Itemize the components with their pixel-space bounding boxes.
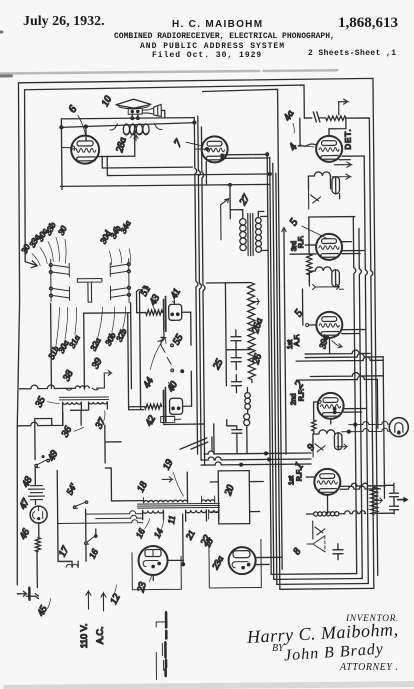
wire riser x211	[211, 437, 213, 451]
arrow 26 tap	[251, 298, 259, 304]
svg-text:5: 5	[292, 307, 305, 319]
mic button 41	[169, 304, 182, 320]
bus v3	[364, 156, 370, 583]
wire right drop x383	[377, 357, 384, 499]
resistor 3rf screen	[307, 254, 312, 275]
wire top border third	[203, 89, 282, 465]
svg-text:23a: 23a	[210, 554, 225, 571]
tube6 grid ext circle	[72, 146, 75, 149]
wire diag 1	[180, 438, 208, 449]
wire misc left col	[58, 509, 97, 567]
coupling L1	[308, 172, 330, 189]
leader 16-14	[145, 518, 164, 528]
arrow det fil2	[332, 174, 350, 179]
capacitor 25c	[231, 375, 241, 393]
svg-text:17: 17	[57, 544, 72, 559]
switch gang left	[49, 263, 52, 266]
bus h355	[305, 350, 370, 354]
tube V6	[71, 136, 99, 164]
cap stack line	[225, 283, 251, 386]
attorney	[340, 662, 398, 673]
svg-text:1st: 1st	[288, 476, 295, 485]
wire xfmr verticals	[105, 467, 187, 503]
svg-text:A.F.: A.F.	[294, 334, 301, 346]
svg-text:2nd: 2nd	[290, 393, 297, 405]
svg-text:41: 41	[169, 287, 183, 301]
xfmr 13 winding	[209, 510, 219, 513]
coil 28a	[123, 124, 129, 135]
bus v4	[346, 118, 376, 589]
arrow det fil1	[334, 162, 351, 167]
wire tube7 grid left	[195, 148, 209, 150]
xfmr 27 core	[248, 214, 253, 256]
tube 1AF	[316, 312, 342, 338]
leader curves S2b	[98, 307, 126, 337]
wire bottom rails	[270, 463, 374, 589]
svg-text:46: 46	[18, 527, 32, 541]
svg-text:38: 38	[61, 369, 76, 384]
switch 49	[35, 460, 51, 468]
wire top border outer	[18, 78, 377, 578]
node grid bus right	[193, 121, 196, 124]
resistor 40r	[145, 404, 162, 409]
box 20	[218, 471, 250, 524]
wire top border inner	[25, 85, 305, 121]
box mic outer	[127, 292, 143, 410]
wire heater line y174	[107, 155, 270, 176]
svg-text:54': 54'	[64, 481, 78, 496]
wire 3hop lines	[58, 511, 143, 524]
xfmr 19 sec1	[143, 510, 164, 513]
antenna 8	[307, 536, 325, 552]
bus h381	[296, 376, 377, 380]
tube DET	[316, 136, 342, 162]
wire 36 drops	[63, 410, 89, 425]
cap mid	[227, 420, 242, 454]
svg-text:37: 37	[93, 416, 108, 432]
tube 23	[138, 546, 167, 575]
svg-text:40: 40	[165, 380, 179, 394]
wire det grid left	[298, 118, 346, 146]
resistor 2rf grid	[312, 420, 317, 431]
xfmr 36 sec1	[63, 402, 82, 404]
svg-text:R.F.: R.F.	[298, 236, 305, 249]
svg-text:25: 25	[211, 357, 225, 371]
trimmer cap A	[309, 189, 321, 209]
signature John B Brady	[283, 641, 384, 666]
switch gang rails	[51, 259, 129, 304]
xfmr 18 right top winding	[201, 500, 214, 502]
svg-text:8: 8	[291, 546, 303, 556]
capacitor 25a	[231, 330, 241, 350]
inventor block	[346, 614, 399, 624]
svg-text:12: 12	[108, 592, 122, 606]
arrow det top	[339, 99, 348, 115]
wire speaker to V7 line y116	[161, 110, 194, 123]
tube 3RF	[316, 234, 342, 260]
signature Harry C. Maibohm	[247, 619, 399, 648]
trimmer cap B	[313, 439, 325, 457]
avc arrows	[312, 284, 343, 289]
wire mic41 right	[161, 312, 191, 345]
grid cap det	[304, 112, 320, 122]
wire jog vertical b	[198, 116, 203, 460]
leader curves S1b	[56, 307, 77, 345]
mic diaphragm 41	[164, 296, 166, 331]
svg-text:DET.: DET.	[343, 128, 352, 149]
xfmr 27 secondary	[255, 217, 261, 223]
coupling L3	[313, 430, 335, 447]
svg-text:16: 16	[87, 547, 100, 560]
svg-text:32a: 32a	[88, 336, 103, 353]
trimmer cap C	[313, 521, 325, 539]
wire tube6 grid riser	[85, 127, 87, 141]
svg-text:4: 4	[287, 141, 300, 153]
wire switch left drop	[50, 303, 53, 388]
resistor 26a	[247, 283, 255, 380]
xfmr 27 primary	[240, 219, 246, 225]
svg-text:23: 23	[136, 581, 149, 593]
tube V7	[202, 136, 228, 162]
BY	[272, 643, 284, 654]
svg-text:26: 26	[251, 353, 264, 366]
svg-text:1st: 1st	[287, 340, 294, 349]
leader curves S1	[32, 237, 66, 265]
wire 46 drop	[36, 552, 38, 588]
wire 27 sec top	[258, 211, 264, 217]
switch 16	[85, 536, 95, 544]
svg-text:44: 44	[141, 376, 155, 390]
header patent number	[338, 15, 398, 32]
wire box20 conn	[210, 481, 263, 512]
xfmr 18 primary	[144, 500, 188, 502]
wire grid bus y123	[61, 123, 194, 128]
tube 23a	[228, 547, 255, 574]
bus v1	[353, 217, 358, 574]
capacitor 25b	[231, 350, 241, 370]
wire tube6 plate up	[97, 124, 134, 156]
xfmr 36 core	[60, 397, 109, 400]
speaker horn 10	[116, 99, 152, 108]
svg-text:21: 21	[184, 528, 197, 541]
svg-text:5: 5	[287, 216, 300, 228]
wire tube7 cathode drop	[205, 161, 207, 184]
svg-text:47: 47	[17, 496, 32, 511]
svg-text:20: 20	[223, 484, 237, 497]
svg-text:39a: 39a	[317, 333, 330, 350]
wire left border	[14, 83, 22, 426]
switch arrow	[25, 261, 37, 268]
arrow cpl3	[337, 444, 347, 449]
wire mic41 loop	[136, 286, 148, 312]
bus h377	[310, 372, 383, 376]
ant coil	[314, 512, 318, 516]
wire line y184	[60, 184, 270, 220]
resistor 43	[146, 310, 163, 315]
svg-text:110 V.: 110 V.	[79, 624, 89, 649]
artifact bottom band	[3, 681, 414, 689]
switch 55	[161, 337, 171, 364]
wire switch right drop	[130, 303, 132, 313]
bus y465	[201, 461, 311, 465]
xfmr 19 sec2	[186, 510, 207, 513]
box 23a	[209, 539, 261, 587]
wire left x56 col	[52, 418, 58, 561]
wire tube6 left vert	[60, 119, 63, 189]
resistor 26 lower	[251, 380, 253, 383]
wire center verticals	[267, 152, 280, 589]
svg-text:28a: 28a	[114, 136, 128, 153]
svg-text:10: 10	[100, 94, 114, 108]
artifact top smudge	[0, 70, 337, 73]
wire bus y387	[19, 385, 74, 389]
bus h358	[305, 353, 383, 357]
wire 1rf conn	[306, 476, 385, 514]
svg-text:18: 18	[135, 480, 149, 494]
wire bus y424	[17, 411, 63, 425]
xfmr 18-19 core	[138, 503, 220, 508]
svg-text:1: 1	[291, 459, 306, 472]
cap 52a	[389, 491, 398, 501]
wire 3rf box	[284, 217, 357, 455]
arrow 39	[96, 370, 111, 388]
svg-text:11: 11	[166, 515, 177, 525]
battery 48	[28, 484, 44, 505]
svg-text:39: 39	[90, 356, 105, 371]
header sheet count	[308, 49, 396, 58]
arrow 44ptr	[158, 337, 164, 341]
svg-text:45: 45	[36, 604, 50, 618]
bus h362	[296, 357, 383, 361]
svg-text:6: 6	[66, 103, 79, 115]
gnd arrow right	[398, 499, 405, 501]
header title line 2	[140, 42, 285, 51]
wire heater line y167	[102, 156, 192, 168]
cap 52b	[390, 501, 399, 514]
arrow 19	[162, 477, 172, 482]
mic button 40	[170, 398, 183, 414]
xfmr 27 sec taps	[261, 216, 268, 250]
arrow 39a	[332, 341, 342, 348]
wire jog vertical c	[201, 127, 206, 465]
bus v2	[359, 229, 364, 579]
tube 47	[30, 506, 47, 523]
header inventor name	[172, 19, 263, 30]
tube 2RF	[317, 393, 343, 419]
coupling L2	[309, 267, 331, 286]
wire left lower vertical	[16, 426, 19, 585]
artifact left mark	[0, 32, 11, 76]
header filed line	[152, 51, 262, 60]
bus y454	[204, 450, 311, 454]
wire 23a conn	[255, 557, 281, 564]
comp 42	[161, 416, 181, 422]
svg-text:27: 27	[238, 192, 253, 207]
wire pot 50 frame	[375, 483, 394, 513]
svg-text:36: 36	[59, 425, 74, 440]
svg-text:4a: 4a	[282, 109, 296, 123]
wire 2rf conn	[314, 401, 366, 423]
tube 1RF	[314, 469, 340, 495]
ac arrows	[86, 591, 106, 611]
arrow pot 27	[221, 199, 229, 240]
switch 54	[74, 502, 86, 508]
cap 8b	[333, 544, 343, 560]
svg-text:31a: 31a	[66, 333, 81, 350]
wire mic40 wiring	[128, 371, 204, 425]
svg-text:A.C.: A.C.	[95, 626, 105, 644]
choke 24	[245, 393, 251, 399]
choke top	[244, 414, 250, 420]
ground G1	[165, 612, 167, 676]
svg-text:7: 7	[172, 137, 185, 149]
header date	[23, 14, 105, 30]
header title line 1	[114, 32, 335, 41]
wire speaker legs	[132, 114, 138, 118]
wire 49 drop	[35, 418, 53, 483]
svg-text:42: 42	[144, 414, 158, 428]
wire speaker bus y117	[61, 118, 194, 119]
coil 38	[75, 386, 89, 388]
resistor 46	[38, 523, 40, 538]
wire jog vertical a	[194, 123, 199, 454]
svg-text:32b: 32b	[113, 327, 128, 344]
bus y460	[201, 456, 311, 460]
svg-text:19: 19	[161, 458, 175, 472]
svg-text:30: 30	[55, 223, 69, 237]
arrow pot 50	[375, 498, 382, 503]
box 23	[132, 552, 181, 589]
wire right col x103	[105, 425, 121, 463]
leader curves S2 top	[109, 249, 130, 265]
svg-text:48: 48	[20, 475, 34, 489]
resistor 50	[370, 487, 377, 514]
wire det plate out	[339, 156, 364, 160]
wire 23 conn	[153, 514, 184, 580]
switch gang right	[127, 263, 130, 266]
wire 27 primary top	[230, 210, 243, 219]
box phono	[84, 313, 132, 389]
wire tube7 plate lines	[224, 154, 270, 158]
wire 1af conn	[302, 288, 365, 354]
xfmr 36 sec2	[89, 402, 108, 404]
wire mid risers	[214, 424, 247, 454]
arrow on v285	[282, 227, 286, 232]
wire left inner border	[24, 90, 27, 262]
grid leak det	[320, 117, 326, 119]
jack P	[389, 418, 408, 437]
node 23	[182, 563, 185, 566]
plug 45	[17, 588, 38, 600]
svg-text:49: 49	[46, 449, 60, 463]
wire bus y283	[206, 282, 250, 284]
wire jack conn	[342, 421, 390, 431]
wire 3rf bottom	[290, 250, 364, 254]
mic diaphragm 40	[163, 387, 165, 422]
coil 17	[66, 564, 78, 567]
svg-text:35: 35	[33, 395, 48, 410]
switch actuator	[77, 279, 102, 303]
svg-text:14: 14	[152, 526, 165, 539]
